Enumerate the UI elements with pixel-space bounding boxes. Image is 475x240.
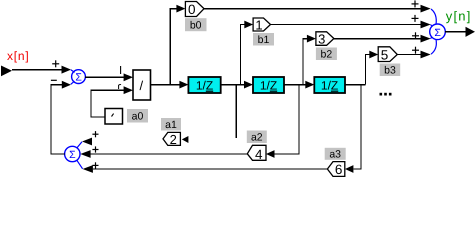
svg-text:1/Z: 1/Z xyxy=(260,79,277,93)
svg-text:y[n]: y[n] xyxy=(446,9,472,24)
input port In1 xyxy=(1,66,12,77)
svg-text:2: 2 xyxy=(170,132,177,147)
wire sum S3 to output port xyxy=(445,31,466,33)
plus sign sum S3 input 3 xyxy=(412,32,419,39)
wire sum S2 output feedback to sum S1 xyxy=(51,85,65,154)
svg-text:a1: a1 xyxy=(165,119,177,131)
label b0 xyxy=(185,18,207,31)
wire input to sum S1 xyxy=(12,69,62,71)
svg-text:b3: b3 xyxy=(384,65,396,77)
plus sign sum S3 input 1 xyxy=(412,0,419,7)
label b2 xyxy=(316,48,337,61)
plus sign sum S3 input 2 xyxy=(412,15,419,22)
arrowhead sum S3 input 3 xyxy=(421,35,431,43)
wire tap up from node 1 to gain b1 xyxy=(240,25,245,85)
wire tap down from node 2 to gain a2 xyxy=(275,85,300,154)
svg-text:Σ: Σ xyxy=(75,71,82,83)
svg-text:4: 4 xyxy=(255,147,263,162)
delay block Z1 xyxy=(188,77,220,93)
svg-text:b2: b2 xyxy=(321,49,333,61)
constant a0 block xyxy=(105,109,123,125)
delay block Z3 xyxy=(314,77,345,93)
wire divide output to delay Z1 xyxy=(151,84,181,86)
wire delay Z3 output xyxy=(345,84,365,86)
sum S3 xyxy=(430,9,446,54)
wire tap up from node 3 to gain b3 xyxy=(365,55,369,85)
gain b1 xyxy=(253,17,270,32)
gain a2 xyxy=(247,145,266,162)
plus sign sum S2 input 2 xyxy=(92,146,98,152)
plus sign sum S2 input 3 xyxy=(92,162,98,168)
minus sign sum S1 input 2 xyxy=(51,79,57,81)
wire delay Z2 to delay Z3 xyxy=(284,84,306,86)
label b3 xyxy=(380,64,401,77)
port mark top of divide input xyxy=(120,66,122,74)
sum S1 xyxy=(71,70,86,85)
wire gain a2 to sum S2 xyxy=(91,153,248,155)
svg-text:1/Z: 1/Z xyxy=(196,79,213,93)
svg-text:b1: b1 xyxy=(258,34,270,46)
plus sign sum S3 input 4 xyxy=(412,47,419,54)
svg-text:Σ: Σ xyxy=(69,149,76,161)
svg-text:x[n]: x[n] xyxy=(7,49,30,63)
divide block U1 xyxy=(133,70,151,100)
gain a1 xyxy=(163,132,180,147)
wire node w tap up to gain b0 xyxy=(170,9,176,85)
delay block Z2 xyxy=(253,77,284,93)
wire gain a3 to sum S2 xyxy=(93,168,328,170)
wire tap down from node 3 to gain a3 xyxy=(353,85,361,169)
svg-text:/: / xyxy=(139,78,143,93)
label a1 xyxy=(161,118,181,131)
arrowhead into gain a1 xyxy=(182,136,189,143)
output port Out1 xyxy=(466,27,475,37)
label b1 xyxy=(253,33,274,46)
arrowhead sum S3 input 4 xyxy=(421,51,431,59)
arrowhead sum S2 input 1 xyxy=(82,138,92,146)
svg-text:b0: b0 xyxy=(190,19,202,31)
gain b3 xyxy=(378,47,397,63)
plus sign sum S2 input 1 xyxy=(92,131,98,137)
plus sign sum S1 input 1 xyxy=(52,60,59,67)
port mark r of divide second input xyxy=(119,84,121,89)
sum S2 xyxy=(65,142,83,169)
ellipsis continuation dots xyxy=(380,93,392,96)
svg-text:Σ: Σ xyxy=(434,27,441,39)
svg-text:0: 0 xyxy=(188,2,196,17)
svg-text:a0: a0 xyxy=(132,111,144,123)
svg-text:6: 6 xyxy=(335,162,343,177)
wire sum S1 to divide block xyxy=(85,76,124,78)
arrowhead sum S2 input 2 xyxy=(80,150,90,158)
wire gain b2 to sum S3 xyxy=(334,38,421,40)
svg-text:a2: a2 xyxy=(251,132,263,144)
wire a0 constant to divide block xyxy=(91,90,124,117)
arrowhead sum S3 input 1 xyxy=(421,5,431,13)
wire gain b0 to sum S3 xyxy=(204,8,421,10)
wire delay Z1 to delay Z2 xyxy=(221,84,245,86)
wire gain b3 to sum S3 xyxy=(397,54,421,56)
wire gain b1 to sum S3 xyxy=(271,24,422,26)
svg-text:a3: a3 xyxy=(329,148,341,160)
svg-text:3: 3 xyxy=(318,31,325,46)
wire tap up from node 2 to gain b2 xyxy=(303,39,307,85)
gain b2 xyxy=(316,31,334,46)
gain a3 xyxy=(327,162,344,178)
svg-text:1/Z: 1/Z xyxy=(321,79,338,93)
arrowhead sum S2 input 3 xyxy=(83,165,93,173)
label a3 xyxy=(325,148,346,161)
gain b0 xyxy=(185,2,204,17)
wire tap down from node 1 (dead end) xyxy=(235,85,237,138)
label a2 xyxy=(247,131,267,144)
label a0 xyxy=(127,109,148,123)
svg-text:5: 5 xyxy=(381,47,389,62)
svg-text:1: 1 xyxy=(255,17,262,32)
arrowhead sum S3 input 2 xyxy=(421,21,431,29)
